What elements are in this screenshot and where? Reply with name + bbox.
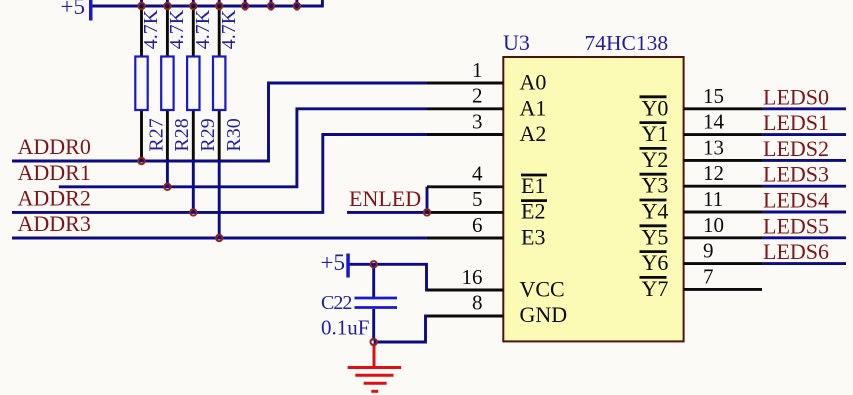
- svg-text:LEDS5: LEDS5: [763, 213, 829, 238]
- svg-text:4.7K: 4.7K: [218, 9, 240, 49]
- svg-text:2: 2: [472, 84, 483, 108]
- svg-text:4.7K: 4.7K: [166, 9, 188, 49]
- svg-text:E3: E3: [521, 224, 545, 249]
- svg-text:ADDR3: ADDR3: [18, 211, 91, 236]
- svg-text:74HC138: 74HC138: [585, 31, 669, 55]
- svg-text:9: 9: [703, 239, 714, 263]
- svg-text:U3: U3: [503, 30, 530, 55]
- svg-text:VCC: VCC: [520, 276, 565, 301]
- svg-text:4.7K: 4.7K: [192, 9, 214, 49]
- svg-text:ADDR2: ADDR2: [18, 185, 91, 210]
- svg-text:Y6: Y6: [642, 250, 669, 275]
- svg-text:ADDR1: ADDR1: [18, 160, 91, 185]
- svg-text:8: 8: [472, 291, 483, 315]
- svg-text:3: 3: [472, 109, 483, 133]
- svg-text:C22: C22: [321, 292, 351, 314]
- svg-text:LEDS1: LEDS1: [763, 110, 829, 135]
- svg-text:LEDS3: LEDS3: [763, 162, 829, 187]
- svg-text:A2: A2: [520, 121, 547, 146]
- svg-text:Y5: Y5: [642, 224, 669, 249]
- svg-text:A0: A0: [520, 70, 547, 95]
- svg-text:+5: +5: [61, 0, 85, 19]
- svg-text:Y7: Y7: [642, 276, 669, 301]
- svg-text:ADDR0: ADDR0: [18, 134, 91, 159]
- svg-text:E1: E1: [521, 173, 545, 198]
- svg-text:ENLED: ENLED: [349, 186, 421, 211]
- svg-text:R30: R30: [223, 118, 245, 151]
- svg-text:GND: GND: [520, 302, 568, 327]
- svg-text:Y0: Y0: [642, 95, 669, 120]
- svg-text:+5: +5: [321, 250, 345, 275]
- svg-text:A1: A1: [520, 95, 547, 120]
- svg-text:10: 10: [703, 213, 724, 237]
- svg-text:16: 16: [462, 265, 483, 289]
- svg-text:6: 6: [472, 213, 483, 237]
- svg-text:4: 4: [472, 162, 483, 186]
- svg-text:E2: E2: [521, 199, 545, 224]
- svg-text:Y4: Y4: [642, 199, 669, 224]
- svg-text:7: 7: [703, 264, 714, 288]
- svg-text:14: 14: [703, 110, 725, 134]
- svg-text:R28: R28: [171, 118, 193, 151]
- svg-text:R29: R29: [197, 118, 219, 151]
- svg-text:Y1: Y1: [642, 121, 669, 146]
- svg-text:LEDS2: LEDS2: [763, 136, 829, 161]
- svg-text:11: 11: [703, 187, 723, 211]
- svg-text:15: 15: [703, 84, 724, 108]
- svg-text:13: 13: [703, 135, 724, 159]
- svg-text:LEDS4: LEDS4: [763, 188, 829, 213]
- svg-text:Y2: Y2: [642, 147, 669, 172]
- svg-text:LEDS0: LEDS0: [763, 84, 829, 109]
- svg-text:1: 1: [472, 58, 483, 82]
- svg-text:Y3: Y3: [642, 173, 669, 198]
- svg-text:R27: R27: [145, 118, 167, 151]
- svg-text:5: 5: [472, 187, 483, 211]
- svg-text:4.7K: 4.7K: [140, 9, 162, 49]
- svg-text:0.1uF: 0.1uF: [321, 316, 369, 340]
- svg-text:12: 12: [703, 161, 724, 185]
- svg-text:LEDS6: LEDS6: [763, 239, 829, 264]
